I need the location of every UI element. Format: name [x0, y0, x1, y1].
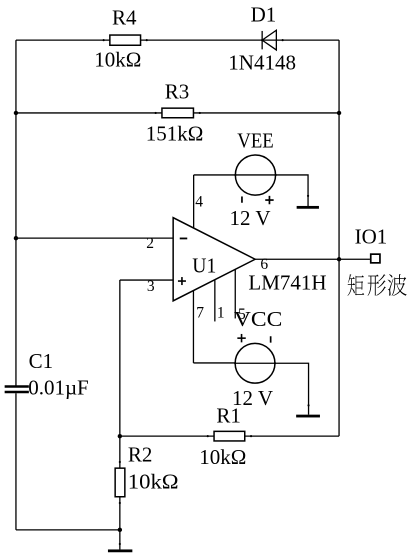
op-amp plus sign [178, 277, 186, 285]
svg-text:C1: C1 [29, 349, 54, 373]
wire left rail upper [15, 40, 17, 385]
pin dot VCC ground [307, 404, 309, 406]
VEE wire through circle [235, 174, 275, 176]
wire top horizontal [16, 39, 339, 41]
svg-text:VCC: VCC [234, 307, 283, 331]
VCC ground [296, 415, 320, 418]
wire R1 horizontal [120, 435, 339, 437]
wire middle rail vertical [119, 280, 121, 530]
wire right rail [338, 40, 340, 436]
svg-text:10kΩ: 10kΩ [128, 469, 179, 493]
capacitor C1 [5, 385, 29, 393]
wire pin4 to VEE [194, 174, 236, 176]
svg-text:D1: D1 [251, 3, 277, 27]
svg-text:R4: R4 [112, 5, 137, 29]
svg-text:0.01µF: 0.01µF [28, 376, 89, 400]
VCC source circle [235, 343, 275, 383]
VEE source circle [235, 155, 275, 195]
wire bottom horizontal [16, 529, 120, 531]
svg-text:1N4148: 1N4148 [228, 50, 296, 74]
VEE plus sign [265, 196, 273, 204]
op-amp U1 [173, 218, 255, 301]
svg-text:151kΩ: 151kΩ [146, 121, 204, 145]
wire VEE to ground [276, 175, 308, 206]
VCC minus tick [270, 336, 272, 342]
svg-text:R3: R3 [165, 79, 190, 103]
svg-text:10kΩ: 10kΩ [94, 48, 141, 72]
wire VCC to ground [275, 363, 309, 414]
pin dot bottom ground [119, 543, 121, 545]
junction dot R1 left [118, 434, 122, 438]
pin dots R4 [103, 39, 310, 545]
svg-text:1: 1 [217, 305, 225, 322]
svg-text:R1: R1 [216, 404, 241, 428]
resistor R4 [110, 35, 141, 45]
wire left rail lower [15, 393, 17, 530]
wire R3 horizontal [16, 112, 339, 114]
svg-text:LM741H: LM741H [248, 271, 326, 295]
diode D1 [262, 30, 276, 50]
resistor R1 [214, 431, 245, 441]
junction dot R3 right [337, 111, 341, 115]
pin dots R3 [155, 112, 157, 114]
pin dots VEE source [234, 174, 236, 176]
VEE ground [297, 206, 319, 209]
pin 5 stub [234, 269, 236, 318]
pin dot VEE ground [307, 195, 309, 197]
pin dots R1 [207, 435, 209, 437]
svg-text:IO1: IO1 [355, 224, 388, 248]
svg-text:4: 4 [195, 194, 203, 211]
pin dots VCC source [234, 362, 236, 364]
VCC plus sign [237, 334, 245, 342]
resistor R2 [115, 468, 125, 497]
svg-text:10kΩ: 10kΩ [199, 445, 246, 469]
IO1 square [371, 254, 380, 263]
pin dots D1 [261, 39, 263, 41]
svg-text:VEE: VEE [237, 128, 273, 152]
wire IO1 stub [339, 258, 370, 260]
wire pin4 vertical [193, 175, 195, 228]
wire pin7 to VCC [193, 362, 235, 364]
label output chinese [347, 274, 406, 296]
svg-text:2: 2 [146, 235, 154, 252]
VEE minus tick [241, 196, 243, 202]
ground bottom pin [119, 530, 121, 550]
junction dot bottom [118, 528, 122, 532]
wire pin3 horizontal [120, 279, 173, 281]
svg-text:3: 3 [147, 278, 155, 295]
pin 1 stub [214, 280, 216, 322]
wire output [255, 258, 339, 260]
resistor R3 [162, 108, 194, 118]
ground bottom bar [108, 549, 132, 552]
op-amp minus sign [180, 237, 188, 239]
VCC wire through circle [235, 362, 275, 364]
svg-text:7: 7 [196, 305, 204, 322]
svg-text:R2: R2 [128, 443, 153, 467]
wire pin7 vertical [192, 290, 194, 363]
junction dot pin2 left [14, 236, 18, 240]
svg-text:12 V: 12 V [230, 206, 271, 230]
junction dot R3 left [14, 111, 18, 115]
junction dot output [337, 257, 341, 261]
svg-text:U1: U1 [192, 253, 216, 277]
wire pin2 to left rail [16, 237, 173, 239]
pin dots R2 [119, 461, 121, 463]
